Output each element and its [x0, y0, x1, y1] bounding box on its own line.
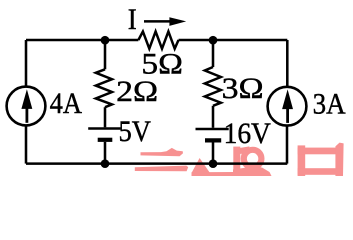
wire: bottom [26, 162, 287, 165]
wire: left side lower [25, 126, 28, 164]
svg-text:5V: 5V [119, 116, 151, 148]
current arrow [144, 17, 186, 26]
wire: right side upper [286, 40, 289, 87]
wire: branch 2 top [212, 40, 215, 67]
svg-text:2Ω: 2Ω [116, 75, 158, 108]
wire: right side lower [286, 126, 289, 164]
svg-text:4A: 4A [50, 87, 83, 120]
node: bottom junction branch 2 [209, 159, 218, 168]
watermark (pink, cut off at bottom) [135, 143, 344, 176]
battery 5V short plate [98, 138, 113, 142]
current source 4A arrow [21, 89, 32, 123]
resistor R 3ohm [205, 67, 221, 106]
current source 3A arrow [282, 89, 293, 123]
wire: branch 1 middle [104, 107, 107, 127]
resistor R 2ohm [96, 69, 112, 107]
node: bottom junction branch 1 [101, 159, 110, 168]
svg-text:3A: 3A [313, 88, 346, 121]
svg-text:16V: 16V [224, 117, 272, 150]
node: top junction branch 2 [209, 36, 218, 45]
node: top junction branch 1 [101, 36, 110, 45]
current source 3A (circle) [268, 87, 307, 126]
battery 5V long plate [88, 127, 120, 130]
wire: branch 1 top [104, 40, 107, 69]
wire: left side upper [25, 40, 28, 86]
wire: branch 1 bottom [104, 142, 107, 164]
battery 16V short plate [205, 138, 221, 142]
svg-text:3Ω: 3Ω [222, 72, 264, 105]
wire: branch 2 bottom [212, 143, 215, 164]
wire: branch 2 middle [212, 106, 215, 128]
current source 4A (circle) [7, 87, 46, 126]
svg-text:I: I [128, 3, 137, 36]
battery 16V long plate [196, 128, 229, 131]
resistor R 5ohm (top) [138, 32, 178, 49]
wire: top right segment [179, 39, 288, 42]
wire: top left segment [26, 39, 138, 42]
